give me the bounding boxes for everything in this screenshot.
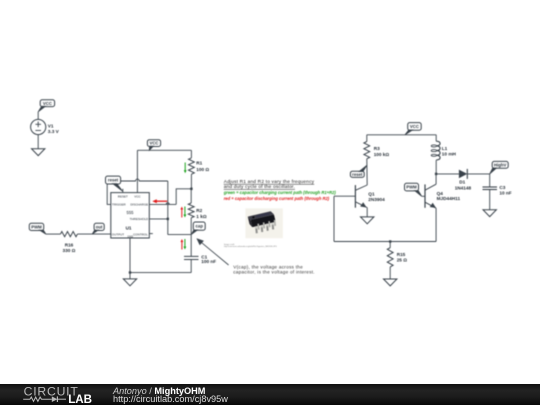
diode D1 [455,169,472,191]
wire discharge loop [149,189,191,205]
svg-text:TRIGGER: TRIGGER [112,203,127,207]
svg-text:330 Ω: 330 Ω [63,248,76,253]
voltage source V1 [31,112,60,149]
svg-text:100 kΩ: 100 kΩ [374,152,390,157]
svg-text:cap: cap [196,224,204,229]
svg-text:reset: reset [108,178,119,183]
wire reset pin stub [122,189,124,193]
resistor R15 [387,242,407,280]
svg-text:1 kΩ: 1 kΩ [196,214,207,219]
ground (R15) [384,279,397,286]
svg-text:THRESHOLD: THRESHOLD [130,217,149,221]
svg-text:CONTROL: CONTROL [133,232,148,236]
footer title text [113,387,228,404]
green arrow cap current [184,239,187,250]
svg-text:R1: R1 [196,161,202,166]
flag HighV [490,161,509,174]
svg-text:10 mH: 10 mH [442,152,457,157]
svg-text:D1: D1 [459,180,465,185]
wire Q4 emitter down [435,208,437,241]
svg-text:VCC: VCC [43,101,52,106]
svg-text:VCC: VCC [410,124,419,129]
flag cap [191,222,205,235]
svg-text:red = capacitor discharging cu: red = capacitor discharging current path… [224,196,330,201]
svg-text:VCC: VCC [149,141,158,146]
svg-text:R16: R16 [65,243,74,248]
wire VCC top (555) [137,149,191,151]
svg-text:Q1: Q1 [368,191,375,196]
svg-text:PWM: PWM [31,224,42,229]
svg-text:25 Ω: 25 Ω [397,258,408,263]
wire L1 to D1 [436,173,459,175]
wire reset net to threshold/cap [121,179,168,235]
wire Q1 emitter to ground [366,208,368,217]
annotation red text [224,196,330,201]
green arrow R1 current [184,163,187,174]
ground (Q1) [361,217,374,224]
node ground rail junction [129,271,131,273]
ground (C3) [483,210,496,217]
svg-text:10 nF: 10 nF [499,190,511,195]
svg-text:555: 555 [127,210,135,215]
resistor R16 [46,232,111,254]
svg-text:out: out [96,224,103,229]
svg-text:RESET: RESET [118,194,128,198]
node R1/R2/discharge junction [190,188,192,190]
svg-text:3.3 V: 3.3 V [48,129,60,134]
resistor R1 [189,150,210,189]
svg-text:2N3904: 2N3904 [368,197,385,202]
flag PWM (left) [29,223,46,234]
svg-text:MJD44H11: MJD44H11 [437,196,461,201]
red arrow cap current [181,239,184,250]
svg-text:100 nF: 100 nF [201,259,216,264]
svg-text:U1: U1 [126,226,132,231]
resistor R3 [364,135,390,185]
svg-text:R2: R2 [196,208,202,213]
wire trigger connection [107,184,111,204]
ground (555) [123,273,136,286]
transistor Q1 [334,185,385,208]
svg-text:L1: L1 [442,146,448,151]
resistor R2 [188,189,207,235]
wire GND pin [129,238,131,273]
transistor Q4 [422,174,461,208]
svg-text:VCC: VCC [134,194,141,198]
wire threshold [149,218,168,220]
svg-text:Adjust R1 and R2 to vary the f: Adjust R1 and R2 to vary the frequency [224,179,315,185]
svg-text:HighV: HighV [494,162,507,167]
wire Q1 base run [333,196,335,241]
flag VCC (555) [147,140,160,151]
red arrow discharge current [152,199,167,203]
capacitor C3 [483,174,512,210]
node L1/D1/Q4 junction [435,173,437,175]
svg-text:OUTPUT: OUTPUT [112,232,125,236]
annotation image credit [224,243,277,248]
svg-text:http://commons.wikimedia.org/w: http://commons.wikimedia.org/wiki/File:S… [224,245,277,248]
wire cap node [168,234,191,236]
ground (V1) [32,149,45,156]
svg-text:R3: R3 [374,146,380,151]
svg-text:capacitor, is the voltage of i: capacitor, is the voltage of interest. [233,270,315,275]
wire D1 to HighV node [467,173,489,175]
annotation vcap text [233,264,315,274]
node threshold junction [167,218,169,220]
svg-text:LAB: LAB [68,393,92,405]
capacitor C1 [184,235,216,273]
annotation adjust text [224,179,315,190]
node R15 junction [389,240,391,242]
flag reset (right) [350,165,367,177]
flag VCC (V1) [38,100,54,112]
flag VCC (right) [405,123,421,135]
wire VCC top (right) [367,134,436,136]
wire C1 to ground rail [130,272,191,274]
svg-text:1N4148: 1N4148 [455,185,472,190]
wire bottom rail [334,241,436,243]
svg-text:DISCHARGE: DISCHARGE [130,203,148,207]
svg-text:100 Ω: 100 Ω [196,167,209,172]
svg-text:reset: reset [352,172,363,177]
green arrow R2 current [184,207,187,218]
footer bar [0,384,540,405]
inductor L1 [431,135,456,174]
svg-text:green = capacitor charging cur: green = capacitor charging current path … [223,190,337,195]
circuitlab logo [0,384,110,405]
flag out [92,223,104,234]
wire VCC pin drop [136,150,138,192]
flag reset (555) [106,176,123,191]
annotation green text [223,190,337,195]
svg-text:C3: C3 [499,185,505,190]
photo NE555 DIP chip [245,208,283,238]
annotation arrow to cap [196,238,228,265]
svg-text:PWM: PWM [406,185,417,190]
flag PWM (right) [405,183,422,196]
svg-text:R15: R15 [397,252,406,257]
red arrow R2 current [180,207,183,218]
op-amp 555 timer U1 [111,193,153,239]
